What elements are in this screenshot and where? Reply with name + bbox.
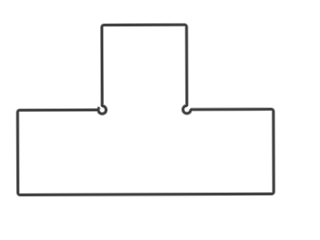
halo: left bend-relief loop	[98, 106, 106, 114]
left bend-relief loop	[98, 106, 106, 114]
tab outline: left, top and right edges	[102, 25, 187, 106]
base plate outline: left, bottom and right edges	[18, 109, 274, 195]
halo: base top edge left segment	[20, 108, 98, 112]
base top edge, right segment	[191, 108, 271, 110]
halo: base top edge right segment	[191, 107, 271, 111]
right bend-relief loop	[183, 106, 191, 114]
base top edge, left segment	[20, 109, 98, 111]
halo: base plate left/bottom/right edges	[18, 109, 274, 195]
halo: right bend-relief loop	[183, 106, 191, 114]
halo: tab outline	[102, 25, 187, 106]
